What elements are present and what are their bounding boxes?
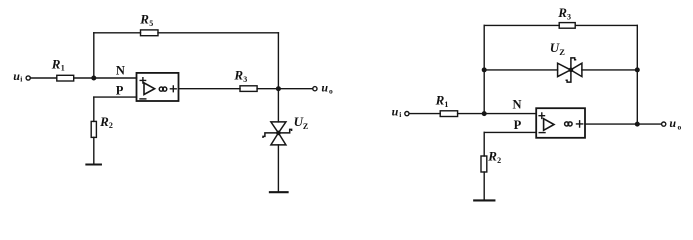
svg-text:2: 2 [109, 121, 113, 130]
svg-text:o: o [329, 87, 333, 96]
svg-text:R: R [233, 67, 243, 82]
input terminal u_i (left circuit) [26, 76, 30, 80]
op-amp U1 triangle [144, 83, 155, 95]
ground (left circuit, below R2) [86, 163, 101, 165]
resistor R1 (right circuit) [440, 111, 457, 117]
wire: top rail left segment [94, 32, 141, 34]
wire: right rail down from top rail to output node [636, 25, 638, 124]
junction dot left rail / zener rail [482, 67, 487, 72]
node N junction dot (left circuit) [91, 76, 96, 81]
resistor R2 (left circuit) [91, 121, 96, 137]
op-amp U2 plus top-left [539, 113, 544, 118]
op-amp U1 infinity symbol [159, 87, 163, 91]
resistor R2 (right circuit) [481, 156, 487, 172]
wire: node P down to R2 [93, 97, 95, 121]
wire: left rail up from node N to top rail [483, 25, 485, 113]
ground (left circuit, below zener) [270, 191, 288, 193]
resistor R3 (right circuit) [559, 23, 575, 29]
ground (right circuit) [474, 199, 494, 201]
input terminal u_i (right circuit) [405, 112, 409, 116]
op-amp U1 (left circuit) [137, 73, 179, 101]
op-amp U2 plus right (output polarity) [577, 121, 583, 127]
svg-text:Z: Z [303, 122, 308, 131]
wire: top rail right segment [158, 32, 278, 34]
svg-text:R: R [557, 5, 567, 20]
svg-text:u: u [392, 104, 399, 118]
zener diode U_Z (right circuit) left triangle [558, 63, 571, 76]
wire: right rail down from top rail to zener [277, 33, 279, 122]
wire: top rail right segment (right circuit) [575, 24, 637, 26]
output terminal u_o (left circuit) [313, 87, 317, 91]
op-amp U2 (right circuit) [536, 108, 585, 138]
node N junction dot (right circuit) [482, 111, 487, 116]
wire: node P horizontal to op-amp [94, 96, 137, 98]
svg-text:5: 5 [149, 19, 153, 28]
zener U_Z center bar with hooks [263, 129, 292, 137]
wire: input terminal to R1 (right) [409, 113, 440, 115]
zener diode U_Z (left circuit, bidirectional) top triangle [271, 122, 286, 133]
op-amp U2 infinity symbol [565, 122, 569, 126]
zener U_Z center bar with hooks (right) [566, 58, 575, 82]
resistor R3 (left circuit) [240, 86, 257, 92]
svg-text:N: N [513, 98, 522, 112]
zener U_Z center junction dot [276, 131, 281, 136]
zener U_Z right triangle [571, 63, 582, 76]
op-amp U1 plus right (output polarity) [170, 86, 176, 92]
svg-text:1: 1 [61, 64, 65, 73]
zener U_Z center junction dot (right) [569, 68, 574, 73]
output node junction dot (right circuit) [635, 122, 640, 127]
resistor R5 [141, 30, 159, 36]
junction dot right rail / zener rail [635, 67, 640, 72]
svg-text:o: o [678, 122, 682, 131]
output node junction dot (left circuit) [276, 86, 281, 91]
op-amp U1 plus top-left [140, 78, 145, 83]
svg-text:R: R [51, 56, 61, 71]
svg-text:i: i [20, 74, 22, 83]
wire: node P down to R2 (right) [483, 132, 485, 156]
wire: R1 to node N to op-amp [74, 77, 137, 79]
wire: R2 to ground (right) [483, 172, 485, 200]
svg-text:u: u [669, 116, 676, 130]
resistor R1 (left circuit) [57, 75, 74, 81]
op-amp U2 minus sign (inverting input mark) [539, 132, 545, 134]
svg-text:U: U [550, 40, 560, 55]
svg-text:R: R [435, 92, 445, 107]
wire: top rail left segment (right circuit) [484, 24, 559, 26]
zener U_Z bottom triangle [271, 133, 286, 145]
svg-text:3: 3 [567, 13, 571, 22]
op-amp U2 triangle [544, 119, 554, 131]
svg-text:u: u [13, 69, 20, 83]
svg-text:u: u [321, 80, 328, 94]
output terminal u_o (right circuit) [662, 122, 666, 126]
svg-text:N: N [116, 63, 125, 77]
wire: node N up to top rail [93, 33, 95, 78]
wire: input terminal to R1 [30, 77, 56, 79]
svg-text:P: P [116, 84, 124, 98]
svg-text:Z: Z [559, 47, 565, 57]
wire: op-amp output to output node (right) [585, 123, 661, 125]
svg-text:i: i [399, 110, 401, 119]
op-amp U1 minus sign (inverting input mark) [140, 98, 146, 100]
wire: R1 to node N to op-amp (right) [458, 113, 537, 115]
svg-text:P: P [514, 118, 522, 132]
svg-text:R: R [139, 11, 149, 26]
wire: op-amp output to R3 [179, 88, 241, 90]
svg-text:R: R [99, 114, 109, 129]
svg-text:3: 3 [243, 75, 247, 84]
wire: zener rail right segment [582, 69, 637, 71]
wire: zener to ground [277, 145, 279, 192]
wire: R3 to output terminal [257, 88, 312, 90]
svg-text:1: 1 [444, 100, 448, 109]
svg-text:2: 2 [497, 156, 501, 165]
wire: R2 to ground [93, 137, 95, 164]
svg-text:R: R [487, 149, 497, 164]
wire: node P horizontal to op-amp (right) [484, 131, 536, 133]
wire: zener rail left segment [484, 69, 557, 71]
